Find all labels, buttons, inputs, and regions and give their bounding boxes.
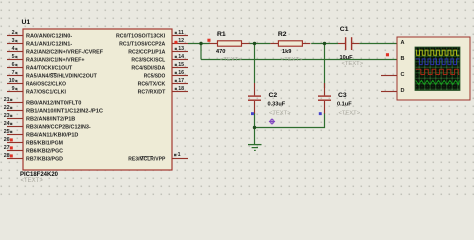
svg-text:21: 21: [4, 97, 10, 103]
svg-text:RB2/AN8/INT2/P1B: RB2/AN8/INT2/P1B: [26, 117, 75, 123]
pin 4 RA2: [7, 46, 103, 55]
svg-text:22: 22: [4, 105, 10, 111]
pin 23 RB2: [4, 113, 76, 122]
pin 25 RB4: [4, 129, 79, 138]
pin 27 RB6: [4, 145, 64, 154]
svg-text:RC6/TX/CK: RC6/TX/CK: [138, 82, 166, 88]
svg-text:RB6/KBI2/PGC: RB6/KBI2/PGC: [26, 149, 64, 155]
trace channel C red: [416, 69, 460, 74]
svg-text:RC2/CCP1/P1A: RC2/CCP1/P1A: [128, 50, 166, 56]
svg-text:13: 13: [178, 46, 184, 52]
svg-text:1k9: 1k9: [282, 49, 291, 55]
wire C1 to scope A: [359, 43, 397, 45]
wire gnd node to C3 bottom: [255, 113, 325, 128]
svg-text:5: 5: [12, 54, 15, 60]
junction node A: [199, 42, 202, 45]
origin marker: [269, 118, 275, 124]
pin 11 RC0: [116, 30, 188, 39]
pin 2 RA0: [7, 30, 72, 39]
svg-text:R1: R1: [217, 31, 226, 38]
svg-text:RC3/SCK/SCL: RC3/SCK/SCL: [131, 58, 165, 64]
svg-text:4: 4: [12, 46, 15, 52]
svg-text:RA0/AN0/C12IN0-: RA0/AN0/C12IN0-: [26, 34, 72, 40]
resistor R1: [210, 31, 250, 63]
svg-text:RA7/OSC1/CLKI: RA7/OSC1/CLKI: [26, 90, 66, 96]
svg-text:0.33uF: 0.33uF: [268, 102, 286, 108]
ground symbol: [248, 145, 262, 151]
svg-text:RC7/RX/DT: RC7/RX/DT: [138, 90, 166, 96]
pin 18 RC7: [138, 86, 188, 95]
pin 21 RB0: [4, 97, 82, 106]
pin 24 RB3: [4, 121, 91, 130]
scope pin D: [381, 88, 405, 94]
svg-text:25: 25: [4, 129, 10, 135]
blue marker C3: [319, 112, 322, 115]
screen graticule: [415, 47, 460, 91]
svg-text:C1: C1: [340, 26, 349, 33]
svg-text:<TEXT>: <TEXT>: [269, 110, 291, 116]
trace channel B blue: [416, 59, 460, 65]
svg-text:RA5/AN4/SS/HLVDIN/C2OUT: RA5/AN4/SS/HLVDIN/C2OUT: [26, 74, 97, 80]
svg-text:27: 27: [4, 145, 10, 151]
pin 22 RB1: [4, 105, 104, 114]
svg-text:RC0/T1OSO/T13CKI: RC0/T1OSO/T13CKI: [116, 34, 166, 40]
pin 9 RA7: [7, 86, 66, 95]
svg-text:RC4/SDI/SDA: RC4/SDI/SDA: [131, 66, 166, 72]
scope pin C: [381, 72, 405, 78]
svg-text:RB7/KBI3/PGD: RB7/KBI3/PGD: [26, 157, 63, 163]
svg-text:6: 6: [12, 62, 15, 68]
svg-text:U1: U1: [22, 19, 31, 26]
svg-text:RA4/T0CKI/C1OUT: RA4/T0CKI/C1OUT: [26, 66, 73, 72]
svg-text:A: A: [401, 40, 405, 46]
pin 16 RC5: [144, 70, 188, 79]
svg-text:10: 10: [9, 78, 15, 84]
svg-text:RB0/AN12/INT0/FLT0: RB0/AN12/INT0/FLT0: [26, 101, 81, 107]
scope pin B: [401, 56, 405, 62]
svg-text:RB4/AN11/KBI0/P1D: RB4/AN11/KBI0/P1D: [26, 133, 78, 139]
capacitor C3: [318, 83, 361, 116]
svg-text:2: 2: [12, 30, 15, 36]
pin 7 RA5: [7, 70, 97, 79]
svg-text:C3: C3: [338, 92, 347, 99]
wire pin12 to node A: [188, 43, 210, 45]
svg-text:RA3/AN3/C1IN+/VREF+: RA3/AN3/C1IN+/VREF+: [26, 58, 85, 64]
pin 28 RB7: [4, 153, 63, 162]
oscilloscope body: [397, 37, 470, 100]
pin 14 RC3: [131, 54, 188, 63]
svg-text:9: 9: [12, 86, 15, 92]
svg-text:RA2/AN2/C2IN+/VREF-/CVREF: RA2/AN2/C2IN+/VREF-/CVREF: [26, 50, 103, 56]
svg-text:3: 3: [12, 38, 15, 44]
svg-text:D: D: [401, 88, 405, 94]
pin 1 RE3/MCLR/VPP: [128, 152, 188, 162]
pin 26 RB5: [4, 137, 63, 146]
red marker near R1: [207, 39, 210, 42]
red marker near scope B: [386, 53, 389, 56]
pin 6 RA4: [7, 62, 73, 71]
wire gnd stub: [254, 128, 256, 145]
capacitor C1: [338, 26, 364, 67]
resistor R2: [270, 31, 310, 63]
svg-text:18: 18: [178, 86, 184, 92]
svg-text:10uF: 10uF: [340, 55, 354, 61]
svg-text:PIC18F24K20: PIC18F24K20: [20, 172, 59, 178]
svg-text:7: 7: [12, 70, 15, 76]
microcontroller U1 PIC18F24K20: [20, 19, 172, 184]
svg-text:470: 470: [216, 49, 225, 55]
svg-text:<TEXT>: <TEXT>: [281, 57, 303, 63]
scope pin A: [401, 40, 405, 46]
trace channel D green: [416, 80, 460, 84]
svg-text:14: 14: [178, 54, 184, 60]
svg-text:23: 23: [4, 113, 10, 119]
junction node C: [323, 42, 326, 45]
pin 12 RC1: [119, 38, 188, 47]
svg-text:RB1/AN10/INT1/C12IN2-/P1C: RB1/AN10/INT1/C12IN2-/P1C: [26, 109, 104, 115]
pin 17 RC6: [138, 78, 188, 87]
svg-text:RB5/KBI1/PGM: RB5/KBI1/PGM: [26, 141, 63, 147]
wire node B down to C2: [254, 44, 256, 84]
svg-text:RE3/MCLR/VPP: RE3/MCLR/VPP: [128, 157, 165, 163]
svg-text:RC5/SDO: RC5/SDO: [144, 74, 166, 80]
svg-text:RC1/T1OSI/CCP2A: RC1/T1OSI/CCP2A: [119, 42, 166, 48]
trace channel A yellow: [416, 50, 460, 55]
pin 5 RA3: [7, 54, 85, 63]
blue marker C2: [251, 112, 254, 115]
junction node G: [253, 126, 256, 129]
svg-text:<TEXT>: <TEXT>: [342, 61, 364, 67]
wire lower run to scope B: [201, 59, 397, 61]
wire C2 bottom to gnd node: [254, 113, 256, 128]
capacitor C2: [248, 83, 291, 116]
svg-text:R2: R2: [278, 31, 287, 38]
pin 10 RA6: [7, 78, 66, 87]
svg-text:28: 28: [4, 153, 10, 159]
svg-text:C2: C2: [269, 92, 278, 99]
svg-text:B: B: [401, 56, 405, 62]
svg-text:12: 12: [178, 38, 184, 44]
svg-text:26: 26: [4, 137, 10, 143]
svg-text:RB3/AN9/CCP2B/C12IN3-: RB3/AN9/CCP2B/C12IN3-: [26, 125, 91, 131]
wire R2 to C1: [311, 43, 338, 45]
pin 13 RC2: [128, 46, 188, 55]
wire node A down: [200, 44, 202, 60]
svg-text:<TEXT>: <TEXT>: [339, 110, 361, 116]
pin 3 RA1: [7, 38, 72, 47]
svg-text:1: 1: [178, 152, 181, 158]
svg-text:<TEXT>: <TEXT>: [220, 57, 242, 63]
svg-text:RA6/OSC2/CLKO: RA6/OSC2/CLKO: [26, 82, 66, 88]
svg-text:RA1/AN1/C12IN1-: RA1/AN1/C12IN1-: [26, 42, 72, 48]
svg-text:C: C: [401, 72, 405, 78]
svg-text:16: 16: [178, 70, 184, 76]
svg-text:0.1uF: 0.1uF: [337, 102, 352, 108]
svg-text:17: 17: [178, 78, 184, 84]
wire R1 to R2: [249, 43, 270, 45]
svg-text:11: 11: [178, 30, 184, 36]
scope screen: [415, 47, 460, 91]
svg-text:24: 24: [4, 121, 10, 127]
wire node C down to C3: [324, 44, 326, 89]
pin 15 RC4: [131, 62, 188, 71]
svg-text:15: 15: [178, 62, 184, 68]
junction node B: [253, 42, 256, 45]
svg-text:<TEXT>: <TEXT>: [21, 178, 44, 184]
